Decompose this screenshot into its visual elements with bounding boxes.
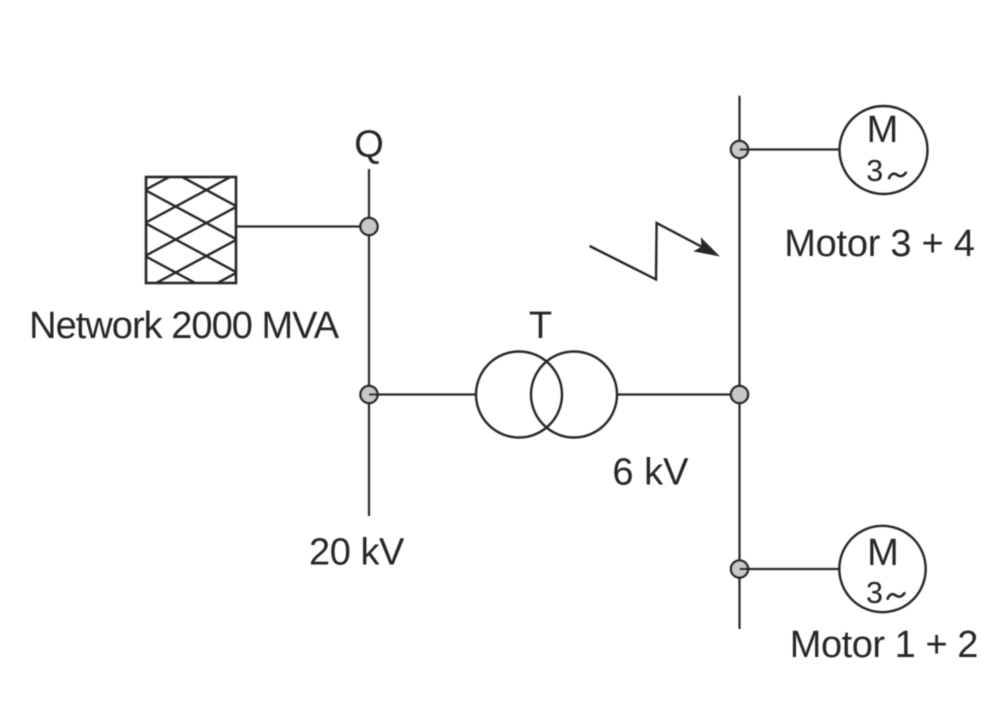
wire: network symbol to 20 kV bus node <box>236 225 369 227</box>
svg-text:3: 3 <box>866 576 883 610</box>
motor M2 tilde (AC symbol) <box>888 593 905 598</box>
node: 6 kV bus at transformer feeder <box>731 386 748 403</box>
fault arrowhead <box>693 237 720 256</box>
motor M2 circle (motors 1+2) <box>839 526 925 612</box>
node: 20 kV bus to transformer branch <box>360 386 377 403</box>
svg-text:20 kV: 20 kV <box>309 532 405 574</box>
svg-text:6 kV: 6 kV <box>612 451 689 493</box>
svg-text:M: M <box>867 109 899 151</box>
6 kV busbar (right vertical line) <box>738 96 740 629</box>
svg-text:T: T <box>529 305 552 347</box>
motor M1 circle (motors 3+4) <box>840 106 928 194</box>
20 kV busbar (left vertical line) <box>368 169 370 516</box>
svg-text:M: M <box>867 532 899 574</box>
svg-text:3: 3 <box>866 154 883 188</box>
short-circuit fault arrow (zigzag) <box>590 223 704 279</box>
node: Q on 20 kV bus <box>360 218 377 235</box>
node: 6 kV bus to motors 1+2 <box>731 560 748 577</box>
wire: 20 kV bus to transformer T <box>369 393 477 395</box>
svg-text:Q: Q <box>354 124 384 166</box>
svg-text:Network 2000 MVA: Network 2000 MVA <box>29 305 340 347</box>
wire: 6 kV bus to motor 3+4 <box>740 148 841 150</box>
node: 6 kV bus to motors 3+4 <box>731 141 748 158</box>
transformer T (two overlapping circles) <box>476 352 617 438</box>
wire: 6 kV bus to motor 1+2 <box>740 568 841 570</box>
svg-text:Motor 3 + 4: Motor 3 + 4 <box>784 223 975 265</box>
network source symbol Q (hatched rectangle) <box>146 141 237 322</box>
svg-text:Motor 1 + 2: Motor 1 + 2 <box>790 624 979 666</box>
wire: transformer T to 6 kV bus <box>617 393 740 395</box>
motor M1 tilde (AC symbol) <box>889 173 906 178</box>
